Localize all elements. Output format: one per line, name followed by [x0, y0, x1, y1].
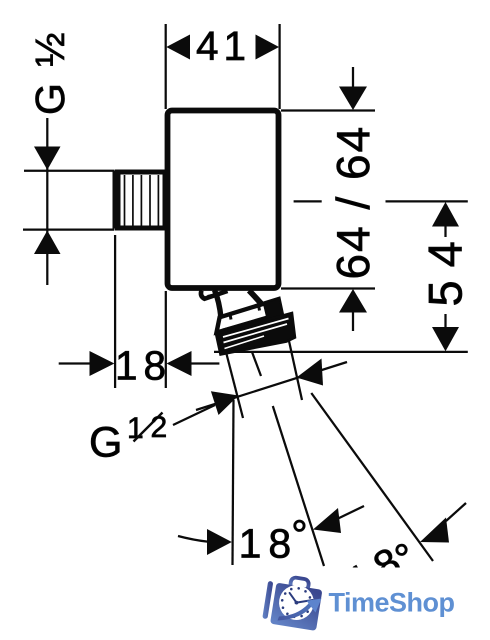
- neck right edge: [249, 291, 267, 310]
- angle reference vertical line: [233, 400, 234, 565]
- svg-text:G ½: G ½: [27, 30, 73, 115]
- collar right joint fill: [263, 299, 282, 319]
- left hook at body bottom: [201, 291, 228, 299]
- svg-text:TimeShop: TimeShop: [329, 588, 455, 618]
- dimension 18 (wall depth): [59, 235, 220, 388]
- outlet nozzle (tilted): [201, 290, 295, 355]
- escutcheon body (wall plate, side view): [168, 111, 279, 289]
- bag side stripe: [262, 581, 273, 619]
- dimension 54 (far right): [214, 201, 468, 352]
- dimension line: [196, 362, 347, 410]
- clock face: [277, 583, 317, 623]
- threaded inlet connector: [113, 171, 166, 229]
- leader from G 1/2 text: [173, 405, 215, 425]
- dimension 64/64 (right): [281, 67, 375, 331]
- collar interior line: [222, 314, 277, 330]
- label 18 deg (second, rotated): [340, 527, 431, 608]
- dimension G 1/2 (left inlet): [27, 30, 73, 115]
- clock ticks: [278, 585, 314, 621]
- extension line outlet right: [289, 341, 302, 400]
- fan line 18 deg: [273, 406, 324, 566]
- angled dimension G 1/2 at outlet: [173, 341, 347, 425]
- neck left edge: [215, 290, 222, 318]
- dimension 41 (top): [166, 24, 280, 109]
- swoosh arrow: [278, 600, 316, 621]
- watermark white box: [253, 568, 490, 640]
- svg-text:18: 18: [115, 343, 172, 389]
- lower dark band with hatch: [216, 313, 295, 355]
- bag handle: [290, 577, 310, 591]
- collar nubs: [230, 314, 231, 320]
- extension middle stub: [252, 352, 261, 376]
- extension line outlet left: [226, 352, 243, 418]
- fan line 36 deg: [311, 393, 433, 561]
- label 18 deg (first): [178, 536, 208, 542]
- svg-text:64 / 64: 64 / 64: [327, 125, 379, 280]
- bag body: [270, 583, 322, 631]
- svg-text:2: 2: [151, 411, 168, 444]
- svg-text:41: 41: [196, 23, 251, 69]
- collar band: [217, 299, 283, 332]
- svg-text:G: G: [89, 419, 122, 467]
- clock hands (10:10): [288, 593, 313, 605]
- svg-text:54: 54: [419, 228, 472, 306]
